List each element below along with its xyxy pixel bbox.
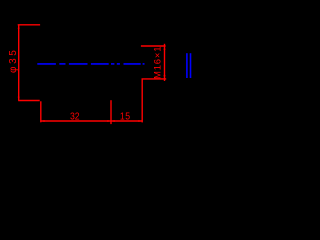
centerline dash 2 [59,63,65,65]
arrowhead 32 right [107,120,111,122]
dimension line 32/15 horizontal [41,120,143,122]
centerline dash 7 [124,63,141,65]
thread end line right [190,53,192,78]
svg-text:φ35: φ35 [8,48,19,73]
centerline dash 4 [91,63,109,65]
svg-text:M16×1: M16×1 [153,46,164,79]
thread end line left [186,53,188,78]
arrowhead 15 right [138,120,142,122]
extension line M16 top [141,45,166,47]
arrowhead phi35 top [18,25,20,29]
centerline dash 5 [111,63,114,65]
centerline dash 6 [117,63,120,65]
arrowhead M16 bottom [164,75,166,79]
extension line phi35 bottom [18,100,40,102]
svg-text:15: 15 [120,111,131,122]
dimension line M16 vertical [164,44,166,81]
extension line 32/15 middle [110,100,112,124]
extension line 15 right [141,79,143,123]
extension line 32 left [40,101,42,122]
svg-text:32: 32 [70,111,80,122]
arrowhead M16 top [164,46,166,50]
arrowhead phi35 bottom [18,97,20,101]
arrowhead 15 left [111,120,115,122]
extension line phi35 top [18,24,40,26]
centerline dash 8 [143,63,145,65]
centerline dash 3 [69,63,88,65]
arrowhead 32 left [41,120,45,122]
dimension line phi35 vertical [18,25,20,101]
extension line M16 bottom [142,78,167,80]
centerline dash 1 [37,63,56,65]
